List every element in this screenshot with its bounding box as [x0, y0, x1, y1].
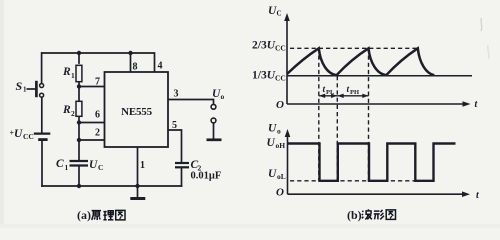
svg-text:PH: PH [350, 89, 359, 96]
wire C1 bottom [78, 166, 80, 187]
dashed vertical 3 [368, 48, 370, 181]
svg-text:O: O [276, 99, 284, 111]
caption char tu (b) [386, 210, 395, 220]
wire pin7 [79, 86, 105, 88]
arrow tPL [319, 94, 338, 98]
caption char tu (a) [116, 210, 125, 220]
wire C2 bottom [181, 168, 183, 187]
junction dot bottom rail C1 [77, 184, 81, 188]
caption char li [103, 211, 113, 220]
svg-text:(a): (a) [77, 208, 91, 222]
svg-text:(b): (b) [347, 208, 362, 222]
svg-text:6: 6 [95, 110, 100, 121]
axis UC vertical [286, 18, 288, 104]
wire pin1 [137, 147, 139, 186]
wire pin4 bridge [131, 53, 155, 72]
svg-text:5: 5 [172, 120, 177, 131]
wire pin2 [79, 139, 105, 141]
wire R branch top [78, 53, 80, 63]
svg-text:4: 4 [158, 61, 163, 72]
wire output to ground [213, 123, 215, 139]
svg-text:C: C [56, 158, 64, 170]
terminal Uo upper [211, 104, 216, 109]
svg-text:PL: PL [326, 89, 335, 96]
svg-text:2: 2 [71, 109, 75, 118]
axis t top chart [287, 103, 463, 105]
IC U1 NE555 [105, 72, 169, 147]
wire left rail lower [41, 141, 43, 187]
dashed level 2/3 [290, 47, 419, 49]
svg-text:R: R [62, 104, 71, 116]
svg-text:0.01μF: 0.01μF [191, 171, 222, 182]
svg-text:U: U [89, 159, 98, 171]
svg-text:C: C [277, 10, 282, 18]
caption char bo [362, 209, 372, 219]
svg-text:S: S [16, 79, 23, 93]
svg-text:C: C [98, 163, 103, 172]
waveform Uo square wave [288, 144, 456, 181]
junction dot pin2 tap [77, 138, 81, 142]
battery +UCC [34, 134, 51, 140]
junction dot pin8 [128, 51, 132, 55]
dashed vertical 1 [318, 48, 320, 181]
svg-text:U: U [14, 128, 23, 140]
svg-text:CC: CC [23, 132, 34, 141]
wire pin8 stub [130, 53, 132, 72]
junction dot pin7 tap [77, 84, 81, 88]
svg-text:O: O [276, 187, 284, 199]
wire left rail upper [41, 53, 43, 84]
svg-text:oL: oL [277, 172, 286, 181]
wire pin6 [79, 122, 105, 124]
junction dot top rail R1 [77, 51, 81, 55]
svg-text:o: o [277, 127, 281, 136]
capacitor C2 [175, 163, 189, 167]
svg-text:oH: oH [276, 141, 286, 150]
svg-text:o: o [221, 92, 225, 101]
dashed vertical 2 [336, 76, 338, 181]
svg-text:3: 3 [174, 89, 179, 100]
svg-text:1: 1 [71, 71, 75, 80]
wire pin5 [168, 130, 182, 162]
ground main stub [137, 186, 139, 197]
svg-text:U: U [268, 123, 277, 135]
scan artifact patch [488, 45, 489, 59]
dashed level UoL [290, 180, 415, 182]
wire bottom rail [42, 185, 182, 187]
svg-text:U: U [267, 137, 276, 149]
svg-text:1: 1 [140, 160, 145, 171]
resistor R1 [76, 65, 82, 81]
svg-text:NE555: NE555 [121, 106, 152, 118]
caption char yuan [92, 211, 101, 220]
caption char xing [374, 210, 384, 220]
ground main bar [130, 197, 145, 200]
terminal Uo lower [211, 118, 216, 123]
svg-text:1: 1 [23, 86, 27, 94]
level line 1/3 [287, 75, 472, 77]
svg-text:U: U [268, 168, 277, 180]
axis t bottom chart [288, 193, 463, 195]
wire left rail mid [41, 97, 43, 132]
wire top rail [42, 52, 131, 54]
arrow tPH [337, 94, 368, 98]
wire R2 to C1 [78, 117, 80, 160]
axis Uo vertical [287, 134, 289, 194]
ground output [207, 138, 222, 141]
svg-text:2: 2 [95, 128, 100, 139]
waveform UC sawtooth [287, 48, 434, 75]
scan artifact squiggle [480, 18, 483, 31]
svg-text:1: 1 [65, 163, 69, 172]
resistor R2 [76, 101, 82, 116]
wire pin3 [168, 100, 214, 105]
junction dot pin6 tap [77, 120, 81, 124]
switch S1 [27, 81, 44, 97]
wire R1 to R2 [78, 82, 80, 102]
svg-text:R: R [62, 66, 71, 78]
svg-text:7: 7 [95, 76, 100, 87]
capacitor C1 [70, 161, 89, 166]
junction dot bottom rail pin1 [135, 184, 139, 188]
svg-text:8: 8 [133, 62, 138, 73]
